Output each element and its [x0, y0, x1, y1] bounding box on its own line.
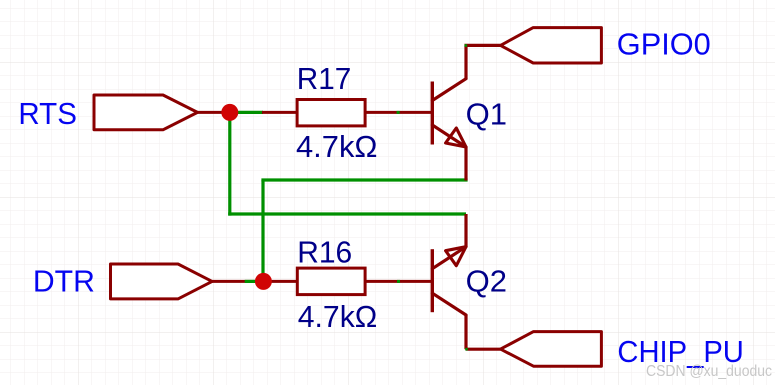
port RTS symbol — [94, 95, 198, 130]
svg-text:CSDN @xu_duoduc: CSDN @xu_duoduc — [646, 363, 772, 380]
node green dot CHIP_PU wire — [465, 348, 468, 351]
port CHIP_PU symbol — [501, 332, 602, 367]
wire Q1 collector to GPIO0 port (red) — [464, 44, 500, 47]
svg-text:4.7kΩ: 4.7kΩ — [298, 299, 378, 334]
resistor R17 body — [297, 100, 365, 126]
transistor Q1 emitter diagonal — [432, 125, 466, 147]
svg-text:Q2: Q2 — [466, 264, 507, 299]
wire vertical to DTR junction (green) — [261, 180, 264, 281]
wire RTS port to junction (red) — [198, 111, 230, 114]
wire RTS junction down (green vertical) — [228, 112, 231, 215]
svg-text:RTS: RTS — [18, 96, 77, 131]
wire lead to R17 (red) — [262, 111, 297, 114]
resistor R16 body — [297, 268, 365, 295]
wire Q1 emitter vertical (red) — [464, 147, 467, 181]
transistor Q2 base bar — [431, 249, 434, 312]
node green dash on DTR wire — [245, 280, 255, 283]
wire R17 to Q1 base (red) — [366, 111, 432, 114]
transistor Q2 collector diagonal — [432, 293, 466, 315]
wire lower horizontal to Q2 emitter (green) — [228, 212, 466, 215]
wire R16 to Q2 base (red) — [366, 280, 432, 283]
svg-text:R16: R16 — [297, 235, 352, 270]
transistor Q2 emitter diagonal — [432, 247, 466, 269]
wire Q2 collector vertical (red) — [464, 315, 467, 349]
wire lead to R16 (red) — [263, 280, 297, 283]
wire Q1 emitter horizontal (green) — [261, 178, 467, 181]
transistor Q1 collector diagonal — [432, 79, 466, 101]
transistor Q1 base bar — [431, 82, 434, 145]
node green dot GPIO0 wire — [465, 44, 468, 47]
node green dash on R17-Q1 wire — [397, 111, 400, 114]
wire DTR port to junction (red) — [212, 280, 263, 283]
svg-text:4.7kΩ: 4.7kΩ — [296, 129, 378, 164]
svg-text:DTR: DTR — [33, 264, 95, 299]
node junction DTR — [255, 273, 272, 290]
transistor Q2 emitter arrow — [446, 247, 466, 266]
node junction RTS — [221, 104, 238, 121]
port DTR symbol — [111, 264, 213, 299]
wire Q2 emitter vertical (red) — [464, 214, 467, 247]
svg-text:Q1: Q1 — [466, 96, 507, 131]
transistor Q1 emitter arrow — [446, 128, 466, 147]
wire RTS junction to R17 (green) — [230, 111, 263, 114]
svg-text:GPIO0: GPIO0 — [617, 27, 711, 62]
wire Q1 collector vertical (red) — [464, 45, 467, 78]
port GPIO0 symbol — [501, 28, 602, 63]
wire Q2 collector to CHIP_PU port (red) — [466, 348, 501, 351]
node green dash on R16-Q2 wire — [397, 280, 400, 283]
svg-text:R17: R17 — [297, 61, 352, 96]
